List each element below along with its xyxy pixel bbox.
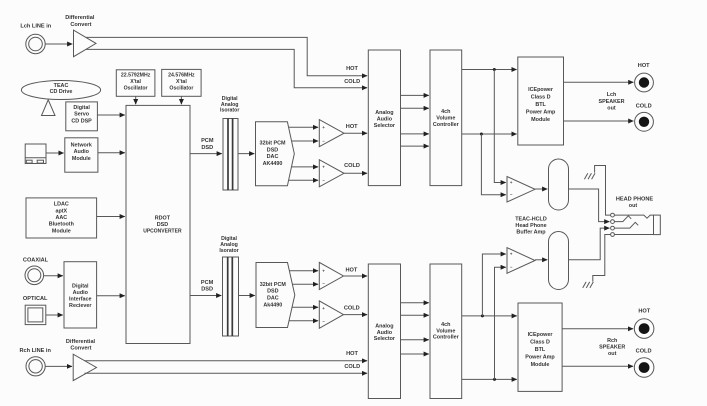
svg-text:TEAC-HCLD: TEAC-HCLD [515,217,547,223]
svg-text:−: − [322,178,325,183]
svg-text:DSD: DSD [267,289,278,295]
svg-text:DSD: DSD [157,222,168,228]
svg-text:Oscillator: Oscillator [124,86,148,92]
svg-text:SPEAKER: SPEAKER [599,345,625,351]
svg-text:DSD: DSD [201,287,213,293]
svg-text:Module: Module [52,228,71,234]
svg-text:COAXIAL: COAXIAL [23,258,49,264]
svg-text:Digital: Digital [73,105,90,111]
svg-text:Module: Module [531,117,550,123]
svg-text:out: out [608,351,617,357]
svg-text:Power Amp: Power Amp [525,354,555,360]
svg-text:out: out [629,203,638,209]
svg-text:Isorator: Isorator [220,108,239,114]
svg-text:Analog: Analog [375,110,393,116]
svg-text:−: − [322,281,325,286]
svg-text:COLD: COLD [636,348,652,354]
svg-text:X'tal: X'tal [176,79,187,85]
svg-text:HOT: HOT [638,63,650,69]
svg-text:+: + [322,269,325,274]
svg-text:Selector: Selector [374,123,396,129]
svg-text:COLD: COLD [344,79,360,85]
svg-text:Selector: Selector [374,336,396,342]
svg-text:HOT: HOT [345,267,357,273]
svg-text:+: + [322,125,325,130]
svg-text:Reciever: Reciever [69,303,92,309]
svg-text:Analog: Analog [375,323,393,329]
svg-text:HOT: HOT [638,308,650,314]
svg-text:TEAC: TEAC [54,83,69,89]
svg-text:HOT: HOT [346,66,358,72]
svg-text:Convert: Convert [70,22,91,28]
svg-text:AAC: AAC [55,215,67,221]
svg-text:AK4490: AK4490 [263,161,283,167]
svg-text:Audio: Audio [73,290,89,296]
svg-text:Lch LINE in: Lch LINE in [20,24,51,30]
svg-text:32bit PCM: 32bit PCM [260,282,287,288]
svg-text:+: + [510,252,513,257]
svg-text:Interface: Interface [69,297,91,303]
svg-text:Class D: Class D [531,95,551,101]
svg-text:ICEpower: ICEpower [528,332,554,338]
svg-text:out: out [607,106,616,112]
svg-text:ICEpower: ICEpower [528,87,554,93]
svg-text:DSD: DSD [267,147,278,153]
svg-text:Volume: Volume [436,328,455,334]
svg-text:4ch: 4ch [441,109,450,115]
svg-text:PCM: PCM [201,280,214,286]
svg-text:DAC: DAC [267,296,279,302]
svg-text:Network: Network [71,142,92,148]
svg-text:COLD: COLD [344,364,360,370]
svg-text:BTL: BTL [535,347,546,353]
svg-text:−: − [322,319,325,324]
svg-text:Isorator: Isorator [219,248,238,254]
svg-text:4ch: 4ch [441,322,450,328]
svg-text:COLD: COLD [344,306,360,312]
svg-text:Ak4490: Ak4490 [263,302,282,308]
svg-text:Power Amp: Power Amp [526,109,556,115]
svg-text:−: − [510,264,513,269]
svg-text:X'tal: X'tal [130,79,141,85]
svg-text:Digital: Digital [72,283,89,289]
svg-text:Buffer Amp: Buffer Amp [516,230,546,236]
svg-text:HEAD PHONE: HEAD PHONE [616,197,654,203]
svg-text:Controller: Controller [433,335,460,341]
svg-text:−: − [510,192,513,197]
svg-text:DAC: DAC [267,154,279,160]
svg-text:OPTICAL: OPTICAL [23,296,48,302]
svg-text:Module: Module [72,156,91,162]
svg-text:BTL: BTL [535,102,546,108]
svg-text:Differential: Differential [66,339,96,345]
svg-text:Volume: Volume [436,116,455,122]
svg-text:UPCONVERTER: UPCONVERTER [143,228,182,234]
svg-text:Audio: Audio [377,116,393,122]
svg-text:Rch: Rch [607,338,617,344]
svg-text:HOT: HOT [346,124,358,130]
svg-text:CD DSP: CD DSP [71,118,92,124]
svg-text:Audio: Audio [377,330,393,336]
svg-text:SPEAKER: SPEAKER [598,99,624,105]
svg-text:Differential: Differential [65,15,95,21]
svg-text:Oscillator: Oscillator [169,86,193,92]
svg-text:+: + [322,164,325,169]
svg-text:Lch: Lch [607,92,617,98]
svg-text:+: + [322,306,325,311]
svg-text:Convert: Convert [70,345,91,351]
svg-text:Bluetooth: Bluetooth [49,222,74,228]
svg-text:22.5792MHz: 22.5792MHz [121,72,151,78]
svg-text:PCM: PCM [201,138,214,144]
svg-text:HOT: HOT [346,351,358,357]
svg-text:Controller: Controller [433,122,460,128]
svg-text:COLD: COLD [344,163,360,169]
svg-text:Rch LINE in: Rch LINE in [20,348,52,354]
svg-text:32bit PCM: 32bit PCM [259,141,286,147]
svg-text:+: + [510,180,513,185]
svg-text:COLD: COLD [636,103,652,109]
svg-text:RDOT: RDOT [155,216,171,222]
svg-text:Class D: Class D [530,339,550,345]
svg-text:Servo: Servo [74,112,90,118]
svg-text:−: − [322,139,325,144]
svg-text:Module: Module [531,362,550,368]
svg-text:Audio: Audio [74,149,90,155]
svg-text:Head Phone: Head Phone [515,223,546,229]
svg-text:aptX: aptX [55,208,67,214]
svg-text:DSD: DSD [201,145,213,151]
svg-text:CD Drive: CD Drive [50,89,73,95]
svg-text:LDAC: LDAC [54,202,69,208]
svg-text:24.576MHz: 24.576MHz [168,72,195,78]
